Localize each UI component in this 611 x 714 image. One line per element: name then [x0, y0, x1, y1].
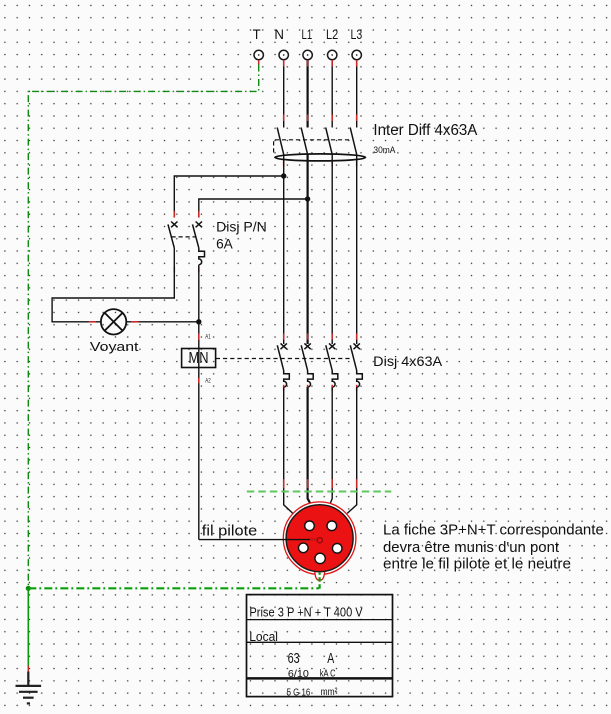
wire socket earth green dashed riser — [319, 573, 321, 589]
terminal L3 — [352, 50, 361, 59]
svg-text:Disj P/N: Disj P/N — [216, 219, 267, 235]
node junction L1 tap — [305, 196, 310, 201]
svg-text:devra être munis d'un pont: devra être munis d'un pont — [383, 540, 559, 556]
wire L1 from terminal to Inter Diff (thick) — [307, 60, 309, 128]
node earth junction — [26, 586, 31, 591]
socket keyway notch — [315, 571, 325, 581]
wire earth bottom horizontal green dash-dot to socket — [28, 587, 319, 589]
boundary light green dashed line — [247, 491, 391, 493]
Disj 4x63A pole 3 X cross — [329, 343, 335, 349]
disjoncteur Q3 Disj 4x63A : pole 1 X cross — [281, 343, 287, 349]
socket centre pilot pin — [317, 538, 322, 543]
wire L2 from Inter Diff to Disj 4x63A — [331, 155, 333, 345]
ground — [16, 672, 42, 704]
svg-text:6/10: 6/10 — [288, 669, 310, 680]
socket pin top-left — [305, 521, 315, 531]
node junction N tap — [281, 173, 286, 178]
Disj 4x63A pole 4 contact blade — [350, 345, 356, 370]
Disj P/N right pole contact blade — [193, 224, 199, 248]
red connection tick fil pilote — [310, 539, 317, 541]
red connection tick MN A1 — [198, 334, 200, 341]
wire Disj P/N left pole down and left to lamp — [52, 248, 174, 322]
wire ground red connection tick — [27, 666, 29, 672]
terminal L2 — [328, 50, 337, 59]
red connection ticks Inter Diff outputs — [284, 161, 357, 167]
MN trip link dashed to Disj 4x63A — [216, 358, 352, 360]
svg-text:N: N — [274, 26, 284, 42]
socket body red disc — [286, 505, 353, 572]
Disj 4x63A pole 1 thermal element — [284, 371, 290, 388]
socket J1 Prise 3P+N+T outer ring — [283, 502, 356, 575]
svg-text:63: 63 — [288, 651, 300, 667]
wire L1 down to socket (thick) — [308, 387, 311, 504]
legend table row line 2 — [247, 641, 393, 643]
terminal T — [254, 50, 263, 59]
wire L2 down to socket — [330, 387, 332, 504]
svg-text:Prise 3 P +N + T 400 V: Prise 3 P +N + T 400 V — [249, 605, 363, 619]
svg-text:5 G 16: 5 G 16 — [287, 687, 311, 698]
svg-text:L2: L2 — [326, 26, 338, 42]
Disj 4x63A pole 2 contact blade — [301, 345, 307, 370]
wire fil pilote horizontal into socket centre — [199, 539, 317, 541]
wire L3 down to socket — [347, 387, 357, 513]
wire L1 from Inter Diff to Disj 4x63A (thick) — [307, 155, 309, 345]
red connection tick lamp right lead — [131, 321, 139, 323]
Inter Diff mechanical link dashed — [274, 140, 351, 153]
wire L1 tap horizontal to Disj P/N right pole — [199, 199, 308, 218]
svg-text:A2: A2 — [205, 378, 211, 385]
Disj P/N mechanical link dashed — [172, 236, 197, 238]
wire T earth red connection tick — [258, 60, 260, 65]
legend table frame — [247, 595, 393, 697]
node junction lamp to MN coil — [196, 319, 201, 324]
svg-text:30mA: 30mA — [373, 145, 395, 155]
Inter Diff pole 3 contact — [326, 128, 333, 155]
svg-text:L1: L1 — [302, 26, 313, 42]
terminal N — [279, 50, 288, 59]
svg-text:mm²: mm² — [321, 687, 338, 698]
wire N down to socket — [284, 387, 294, 514]
Inter Diff pole 2 contact — [301, 128, 308, 155]
disjoncteur Q2 Disj P/N 6A : left pole X contact cross — [171, 222, 177, 228]
Disj P/N right pole thermal-magnetic element — [199, 248, 205, 265]
Disj 4x63A pole 4 X cross — [354, 343, 360, 349]
wire N tap horizontal to Disj P/N left pole — [174, 176, 283, 218]
svg-text:MN: MN — [189, 350, 209, 367]
svg-text:fil pilote: fil pilote — [202, 524, 257, 540]
wire N from terminal to Inter Diff — [283, 60, 285, 128]
Disj P/N right pole X contact cross — [196, 222, 202, 228]
Disj 4x63A pole 1 contact blade — [277, 345, 283, 370]
svg-text:Local: Local — [249, 630, 278, 644]
red connection ticks terminals N L1 L2 L3 — [284, 60, 357, 67]
wire N from Inter Diff to Disj 4x63A — [283, 155, 285, 345]
red connection tick lamp left lead — [89, 321, 96, 323]
svg-text:T: T — [253, 26, 261, 42]
legend table row line 1 — [247, 619, 393, 621]
Disj 4x63A pole 4 thermal element — [357, 371, 363, 388]
wire T earth green dash-dot run to left and down — [28, 65, 258, 587]
wire Disj P/N right pole down through MN coil — [198, 265, 200, 540]
Disj 4x63A pole 2 thermal element — [308, 371, 314, 388]
svg-text:Disj 4x63A: Disj 4x63A — [373, 353, 443, 369]
svg-text:A1: A1 — [205, 333, 211, 340]
Inter Diff pole 4 contact — [350, 128, 357, 155]
legend table row line 3 thick — [247, 677, 393, 680]
svg-text:entre le fil pilote et le neut: entre le fil pilote et le neutre — [383, 556, 571, 572]
Disj 4x63A pole 3 contact blade — [326, 345, 332, 370]
red connection ticks Disj P/N inputs — [174, 211, 199, 217]
wire earth drop to ground symbol — [27, 588, 29, 667]
wire lamp right lead to MN line — [126, 321, 198, 323]
svg-text:kA C: kA C — [320, 668, 336, 679]
red connection ticks Disj 4x63A inputs — [284, 334, 357, 340]
svg-text:La fiche 3P+N+T correspondante: La fiche 3P+N+T correspondante — [383, 522, 604, 538]
svg-text:Voyant: Voyant — [90, 339, 139, 354]
terminal L1 — [303, 50, 312, 59]
red connection ticks Disj P/N outputs — [174, 267, 199, 273]
Disj P/N left pole contact blade — [168, 224, 174, 248]
socket pin bottom earth — [315, 553, 325, 563]
Inter Diff differential toroid ellipse — [275, 154, 366, 161]
wire L3 from Inter Diff to Disj 4x63A — [356, 155, 358, 345]
coil U1 MN undervoltage release — [182, 349, 216, 368]
svg-text:6A: 6A — [216, 236, 233, 252]
Disj 4x63A pole 2 X cross — [304, 343, 310, 349]
svg-text:L3: L3 — [351, 26, 363, 42]
interrupteur differentiel Q1 Inter Diff 4x63A : pole 1 contact — [277, 128, 284, 155]
socket pin mid-right — [332, 544, 342, 554]
red connection tick MN A2 — [198, 378, 200, 384]
socket pin mid-left — [299, 543, 309, 553]
svg-text:A: A — [327, 651, 334, 667]
lamp H1 Voyant — [101, 309, 126, 334]
Disj 4x63A pole 3 thermal element — [332, 371, 338, 388]
svg-text:Inter Diff 4x63A: Inter Diff 4x63A — [373, 122, 478, 139]
wire L2 from terminal to Inter Diff — [331, 60, 333, 128]
wire L3 from terminal to Inter Diff — [356, 60, 358, 128]
red connection ticks Disj 4x63A outputs — [284, 385, 357, 391]
red connection ticks Inter Diff inputs — [284, 115, 357, 122]
red connection ticks above socket — [284, 479, 357, 488]
socket pin top-right — [327, 521, 337, 531]
